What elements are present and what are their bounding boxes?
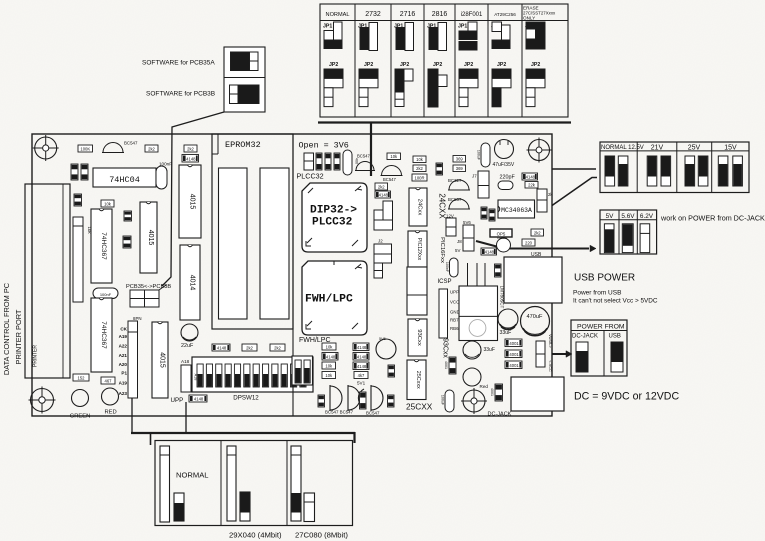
svg-text:8PN: 8PN	[133, 316, 142, 321]
svg-text:74HC04: 74HC04	[109, 175, 140, 185]
svg-text:2k2: 2k2	[274, 345, 281, 350]
svg-text:VUSB->: VUSB->	[548, 334, 552, 349]
svg-text:93Cxx: 93Cxx	[416, 329, 422, 346]
svg-text:JP1: JP1	[458, 24, 467, 30]
svg-text:4015: 4015	[189, 194, 196, 210]
svg-text:4148: 4148	[217, 345, 227, 350]
svg-text:10k: 10k	[325, 363, 333, 368]
svg-text:220: 220	[525, 240, 533, 245]
svg-text:A18: A18	[181, 359, 190, 364]
svg-text:4148: 4148	[357, 345, 367, 350]
svg-text:BC547 BC547: BC547 BC547	[325, 410, 354, 415]
svg-text:10k: 10k	[416, 157, 424, 162]
svg-text:100nF: 100nF	[100, 292, 112, 297]
svg-text:4001: 4001	[444, 361, 448, 369]
svg-text:29X040 (4Mbit): 29X040 (4Mbit)	[229, 531, 282, 540]
svg-text:JP2: JP2	[497, 62, 506, 68]
svg-text:Red: Red	[480, 384, 489, 389]
svg-text:A20: A20	[119, 362, 128, 367]
svg-text:47uF/35V: 47uF/35V	[493, 162, 515, 168]
svg-text:10k: 10k	[390, 154, 398, 159]
svg-text:A22: A22	[119, 344, 128, 349]
svg-text:A19: A19	[119, 381, 128, 386]
svg-text:NORMAL 12.5V: NORMAL 12.5V	[601, 145, 644, 151]
svg-text:A21: A21	[119, 353, 128, 358]
svg-text:ONLY: ONLY	[523, 16, 535, 21]
svg-text:100nF: 100nF	[159, 162, 172, 167]
svg-text:RB6: RB6	[450, 326, 459, 331]
svg-text:DPSW12: DPSW12	[233, 395, 259, 402]
svg-text:EPROM32: EPROM32	[225, 140, 261, 150]
svg-text:33uF: 33uF	[500, 330, 512, 336]
svg-text:4001: 4001	[509, 363, 519, 368]
svg-text:21V: 21V	[651, 145, 664, 152]
svg-text:A18: A18	[194, 374, 198, 381]
svg-text:2732: 2732	[365, 11, 381, 18]
svg-text:4014: 4014	[189, 275, 196, 291]
svg-text:JP1: JP1	[323, 24, 332, 30]
svg-text:4148: 4148	[379, 192, 389, 197]
svg-text:4148: 4148	[357, 354, 367, 359]
svg-text:369: 369	[456, 156, 464, 161]
svg-text:UPP: UPP	[450, 290, 459, 295]
svg-text:2816: 2816	[432, 11, 448, 18]
svg-text:JP2: JP2	[531, 62, 540, 68]
svg-text:BC547: BC547	[357, 154, 370, 159]
svg-text:4148: 4148	[186, 156, 196, 161]
svg-text:4k7: 4k7	[358, 373, 365, 378]
svg-text:VCC: VCC	[450, 300, 459, 305]
svg-text:2k2: 2k2	[378, 184, 385, 189]
svg-text:400: 400	[355, 158, 359, 164]
svg-text:J8: J8	[457, 239, 462, 244]
svg-text:74HC367: 74HC367	[100, 321, 107, 349]
svg-text:JP2: JP2	[329, 62, 338, 68]
svg-text:PRINTER: PRINTER	[33, 345, 39, 367]
svg-text:FWH/LPC: FWH/LPC	[305, 294, 353, 306]
svg-text:PLCC32: PLCC32	[297, 172, 324, 181]
svg-text:4148: 4148	[194, 396, 204, 401]
svg-text:i28F001: i28F001	[461, 12, 483, 18]
svg-text:5V1: 5V1	[357, 381, 366, 386]
svg-text:27C080 (8Mbit): 27C080 (8Mbit)	[295, 531, 348, 540]
svg-text:USB POWER: USB POWER	[574, 273, 635, 284]
svg-text:10k: 10k	[104, 201, 112, 206]
svg-text:ICSP: ICSP	[438, 279, 452, 285]
svg-text:JP2: JP2	[464, 62, 473, 68]
svg-text:BC547: BC547	[383, 177, 396, 182]
svg-text:220pF: 220pF	[500, 175, 516, 181]
svg-text:24Cxx: 24Cxx	[417, 199, 423, 216]
svg-text:USB: USB	[609, 334, 621, 340]
svg-text:DC = 9VDC or 12VDC: DC = 9VDC or 12VDC	[574, 391, 679, 403]
svg-text:5V: 5V	[455, 248, 460, 253]
svg-text:467: 467	[105, 378, 113, 383]
svg-text:PCB35<->PCB3B: PCB35<->PCB3B	[126, 284, 171, 290]
svg-text:RB7: RB7	[450, 318, 459, 323]
svg-text:JP2: JP2	[364, 62, 373, 68]
svg-text:2k2: 2k2	[187, 146, 194, 151]
svg-text:2716: 2716	[400, 11, 416, 18]
svg-text:CK: CK	[120, 327, 127, 332]
svg-text:5V: 5V	[606, 213, 615, 220]
svg-text:UPP: UPP	[171, 397, 184, 404]
svg-text:SOFTWARE for PCB3B: SOFTWARE for PCB3B	[146, 91, 215, 98]
svg-text:4148: 4148	[326, 354, 336, 359]
svg-text:100R: 100R	[414, 175, 424, 180]
svg-text:JP2: JP2	[400, 62, 409, 68]
svg-text:AT29C256: AT29C256	[494, 12, 516, 17]
svg-text:2k2: 2k2	[416, 166, 423, 171]
svg-text:22uF: 22uF	[181, 343, 194, 349]
svg-text:74HC367: 74HC367	[100, 232, 107, 260]
svg-text:22k: 22k	[528, 182, 536, 187]
svg-text:6.2V: 6.2V	[640, 213, 654, 220]
svg-text:It can't not select Vcc > 5VDC: It can't not select Vcc > 5VDC	[573, 298, 658, 305]
svg-text:<-VCC: <-VCC	[548, 360, 552, 372]
svg-text:POWER FROM: POWER FROM	[577, 324, 625, 331]
svg-text:5.6V: 5.6V	[621, 213, 635, 220]
svg-text:25Cxxx: 25Cxxx	[415, 371, 421, 389]
svg-text:100uF: 100uF	[441, 395, 445, 406]
svg-text:100K: 100K	[80, 146, 90, 151]
svg-text:369: 369	[456, 166, 464, 171]
svg-text:4001: 4001	[509, 352, 519, 357]
svg-text:4148: 4148	[526, 174, 536, 179]
svg-text:SOFTWARE for PCB35A: SOFTWARE for PCB35A	[142, 60, 215, 67]
svg-text:NORMAL: NORMAL	[326, 12, 350, 18]
svg-text:10k: 10k	[325, 373, 333, 378]
svg-text:4148: 4148	[357, 364, 367, 369]
svg-text:2k2: 2k2	[246, 345, 253, 350]
svg-text:5V6: 5V6	[463, 220, 471, 225]
svg-text:PLCC32: PLCC32	[312, 217, 353, 229]
svg-text:PRINTER PORT: PRINTER PORT	[14, 309, 23, 364]
svg-text:DATA CONTROL FROM PC: DATA CONTROL FROM PC	[2, 282, 11, 375]
svg-text:93Cxx: 93Cxx	[442, 338, 449, 358]
svg-text:MC34063A: MC34063A	[501, 207, 532, 214]
svg-text:NORMAL: NORMAL	[176, 471, 209, 480]
svg-text:GND: GND	[450, 310, 460, 315]
svg-text:4015: 4015	[147, 230, 154, 246]
svg-text:33uF: 33uF	[484, 347, 495, 353]
svg-text:4001: 4001	[509, 341, 519, 346]
svg-text:4148: 4148	[485, 249, 495, 254]
svg-text:25V: 25V	[688, 145, 701, 152]
svg-text:P1: P1	[121, 371, 127, 376]
svg-text:100nF: 100nF	[445, 262, 449, 273]
svg-text:2k2: 2k2	[534, 230, 541, 235]
svg-text:J7: J7	[472, 174, 477, 179]
svg-text:470uF: 470uF	[527, 314, 543, 320]
svg-text:15V: 15V	[724, 145, 737, 152]
svg-text:5V6: 5V6	[379, 337, 386, 341]
svg-text:4015: 4015	[159, 352, 166, 368]
svg-text:Open = 3V6: Open = 3V6	[299, 141, 349, 151]
svg-text:BC547: BC547	[124, 141, 138, 146]
svg-text:PIC16Fxx: PIC16Fxx	[439, 237, 445, 263]
svg-text:LM7805CT: LM7805CT	[499, 286, 504, 309]
svg-text:152: 152	[78, 375, 86, 380]
svg-text:DC-JACK: DC-JACK	[572, 334, 598, 340]
svg-text:10k: 10k	[326, 344, 334, 349]
svg-text:A23: A23	[119, 391, 128, 396]
svg-text:Green: Green	[497, 236, 507, 240]
svg-text:4001: 4001	[490, 388, 494, 396]
svg-text:Power from USB: Power from USB	[573, 290, 621, 297]
svg-text:DC-JACK: DC-JACK	[488, 412, 512, 418]
svg-text:2k2: 2k2	[148, 146, 155, 151]
svg-text:100uF: 100uF	[477, 150, 481, 161]
svg-text:GREEN: GREEN	[70, 414, 91, 420]
svg-text:RED: RED	[105, 410, 117, 416]
svg-text:JP2: JP2	[433, 62, 442, 68]
svg-text:work on POWER from DC-JACK: work on POWER from DC-JACK	[660, 214, 765, 223]
svg-text:BC547: BC547	[366, 411, 380, 416]
svg-text:J2: J2	[378, 239, 383, 244]
svg-text:DIP32->: DIP32->	[310, 205, 357, 217]
svg-text:A19: A19	[119, 334, 128, 339]
svg-text:PIC12Xxx: PIC12Xxx	[416, 238, 422, 261]
svg-text:25CXX: 25CXX	[406, 402, 433, 412]
